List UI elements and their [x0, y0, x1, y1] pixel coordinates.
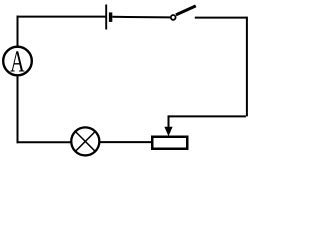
battery cell: long positive plate	[105, 5, 107, 30]
ammeter A: meter circle	[3, 47, 32, 76]
wire: rheostat to lamp	[100, 141, 151, 143]
switch S: open lever arm	[176, 6, 196, 15]
rheostat R: slider arrowhead	[164, 127, 172, 136]
switch S: pivot contact circle	[171, 15, 176, 20]
battery cell: short thick negative plate	[109, 12, 112, 22]
wire: battery to switch contact	[112, 16, 170, 19]
wire: top-left horizontal (corner to battery)	[17, 16, 106, 18]
lamp L: cross diagonal 2	[75, 132, 95, 152]
rheostat R: resistance element box	[152, 137, 187, 149]
ammeter A: letter label	[10, 51, 24, 71]
wire: slider arrow shaft	[168, 115, 170, 128]
wire: lamp to bottom-left corner	[17, 141, 71, 143]
wire: left vertical lower (ammeter bottom to corner)	[17, 76, 19, 143]
wire: right vertical (top-right corner down)	[246, 17, 248, 117]
lamp L: bulb circle	[71, 127, 99, 155]
wire: horizontal to rheostat slider	[169, 115, 246, 117]
wire: left vertical upper (corner to ammeter top)	[17, 16, 19, 47]
lamp L: cross diagonal 1	[75, 132, 95, 152]
wire: switch to top-right corner	[195, 17, 247, 19]
